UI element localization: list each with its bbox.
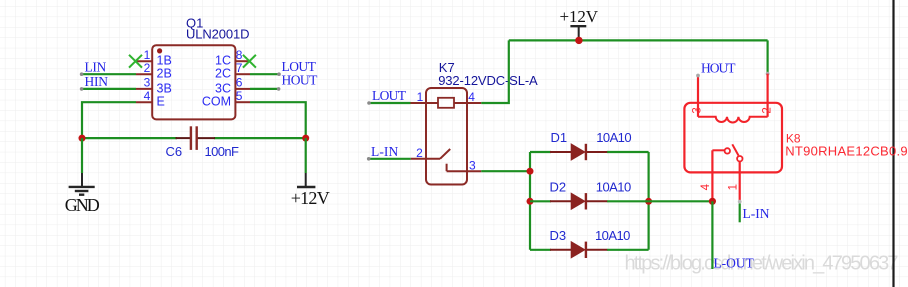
svg-text:https://blog.csdn.net/weixin_4: https://blog.csdn.net/weixin_47950637 — [625, 253, 899, 275]
IC Q1 body — [152, 45, 235, 119]
svg-text:932-12VDC-SL-A: 932-12VDC-SL-A — [438, 73, 538, 88]
ground symbol GND — [69, 173, 95, 195]
svg-text:D3: D3 — [550, 228, 567, 243]
svg-text:C6: C6 — [166, 144, 183, 159]
svg-text:4: 4 — [468, 90, 475, 104]
svg-text:LOUT: LOUT — [372, 88, 407, 103]
junction at +12V rail right — [302, 135, 309, 142]
svg-text:LIN: LIN — [85, 59, 107, 74]
K7 pin 3 — [447, 158, 482, 172]
svg-text:3: 3 — [144, 76, 151, 90]
svg-text:1B: 1B — [157, 54, 172, 68]
svg-text:L-OUT: L-OUT — [714, 255, 755, 270]
K8 pin 4 — [700, 150, 712, 201]
svg-text:4: 4 — [144, 89, 151, 103]
K7 pin 1 — [411, 90, 439, 104]
Q1 pin 8 (1C) — [215, 48, 250, 68]
K7 coil — [438, 98, 467, 108]
svg-text:L-IN: L-IN — [371, 144, 398, 159]
K8 pin 1 — [727, 161, 741, 203]
wire LOUT to K7 pin 1 — [367, 101, 410, 105]
K7 pin 4 — [467, 90, 481, 104]
junction at GND rail left — [79, 135, 86, 142]
wire D2 row — [530, 200, 649, 202]
wire D1 row — [530, 151, 649, 153]
svg-text:2: 2 — [144, 61, 151, 75]
wire K7 pin 3 to diode rail — [481, 170, 530, 172]
svg-text:3C: 3C — [215, 81, 231, 95]
svg-text:2: 2 — [761, 107, 773, 113]
wire diode left rail — [529, 152, 531, 250]
junction K7 wire / left rail — [527, 168, 534, 175]
diode D2 — [550, 193, 607, 209]
svg-text:NT90RHAE12CB0.9: NT90RHAE12CB0.9 — [785, 143, 907, 158]
Q1 pin 7 (2C) — [215, 61, 250, 81]
wire stub Q1 pin 7 — [250, 72, 281, 76]
svg-text:2B: 2B — [157, 67, 172, 81]
svg-text:100nF: 100nF — [205, 144, 240, 159]
K7 pin 2 — [411, 146, 440, 160]
K8 switch — [712, 144, 742, 161]
svg-text:1: 1 — [417, 90, 424, 104]
svg-text:HIN: HIN — [85, 74, 109, 89]
svg-text:1C: 1C — [215, 54, 231, 68]
Q1 pin 1 (1B) — [136, 48, 172, 68]
svg-text:L-IN: L-IN — [743, 206, 770, 221]
relay K8 body — [684, 103, 782, 173]
K7 switch — [440, 149, 450, 171]
junction at +12V rail — [575, 37, 582, 44]
svg-text:6: 6 — [236, 76, 243, 90]
wire +12V top rail — [509, 39, 768, 41]
relay K7 body — [426, 88, 467, 185]
svg-text:3: 3 — [692, 107, 704, 113]
svg-text:ULN2001D: ULN2001D — [186, 27, 250, 42]
wire diode right rail — [647, 152, 649, 250]
capacitor C6 — [176, 126, 216, 150]
wire K8 pin 4 junction down to L-OUT — [711, 201, 713, 269]
wire stub L-IN at K8 pin 1 — [739, 204, 741, 223]
junction D2 / left rail — [527, 198, 534, 205]
svg-text:+12V: +12V — [560, 7, 599, 26]
wire GND rail (bottom horizontal, C6 net) — [82, 137, 306, 139]
K8 coil pin 2 (+12V side) — [761, 74, 773, 117]
svg-text:E: E — [157, 95, 165, 109]
svg-text:+12V: +12V — [291, 188, 330, 208]
svg-text:COM: COM — [202, 95, 231, 109]
wire D3 row — [530, 249, 649, 251]
K8 coil pin 3 (HOUT side) — [692, 74, 704, 117]
wire junction down to +12V power symbol (bottom) — [305, 138, 307, 173]
wire HIN to Q1 pin 3 — [80, 87, 136, 91]
wire right rail to K8 pin 4 junction — [649, 200, 713, 202]
svg-text:2C: 2C — [215, 67, 231, 81]
svg-text:D1: D1 — [551, 130, 568, 145]
wire Q1 pin 4 (E) down to GND rail — [82, 102, 136, 138]
diode D1 — [550, 144, 607, 160]
svg-text:8: 8 — [236, 48, 243, 62]
power symbol +12V (bottom) — [297, 173, 315, 187]
wire junction down to ground symbol — [81, 138, 83, 173]
power symbol +12V (top) — [570, 26, 586, 40]
svg-text:D2: D2 — [550, 180, 567, 195]
svg-text:1: 1 — [727, 184, 739, 190]
wire +12V rail down to K8 coil pin 2 — [766, 40, 770, 75]
svg-text:10A10: 10A10 — [596, 180, 631, 195]
svg-text:HOUT: HOUT — [282, 72, 319, 87]
svg-text:GND: GND — [65, 195, 100, 215]
junction at K8 pin 4 — [709, 198, 716, 205]
Q1 pin 4 (E) — [136, 89, 165, 109]
Q1 pin 3 (3B) — [136, 76, 172, 96]
wire Q1 pin 5 (COM) down to +12V rail — [250, 102, 306, 138]
no-connect X on pin 1 — [129, 55, 142, 68]
wire LIN to Q1 pin 2 — [80, 72, 136, 76]
svg-text:3: 3 — [469, 158, 476, 172]
svg-text:2: 2 — [416, 146, 423, 160]
wire stub Q1 pin 6 — [250, 87, 280, 91]
svg-text:HOUT: HOUT — [701, 60, 736, 75]
K8 coil — [698, 117, 768, 123]
Q1 pin 2 (2B) — [136, 61, 172, 81]
diode D3 — [550, 242, 607, 258]
Q1 pin 6 (3C) — [215, 76, 250, 96]
svg-text:4: 4 — [700, 183, 712, 190]
wire L-IN to K7 pin 2 — [367, 157, 411, 161]
no-connect X on pin 8 — [243, 55, 256, 68]
svg-text:1: 1 — [144, 48, 151, 62]
svg-text:10A10: 10A10 — [595, 228, 630, 243]
svg-text:10A10: 10A10 — [596, 130, 631, 145]
svg-text:3B: 3B — [157, 81, 172, 95]
svg-text:5: 5 — [236, 89, 243, 103]
junction D2 / right rail — [645, 198, 652, 205]
Q1 pin 5 (COM) — [202, 89, 250, 109]
svg-text:7: 7 — [236, 61, 243, 75]
wire K7 pin 4 up to +12V rail — [481, 40, 509, 103]
